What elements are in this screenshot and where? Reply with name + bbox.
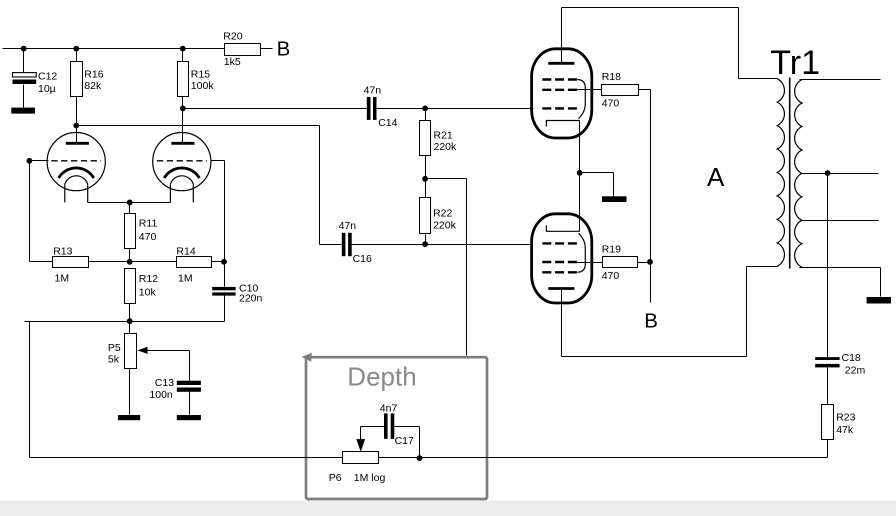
wire plate to transformer bottom	[562, 267, 778, 357]
resistor R13	[53, 257, 89, 268]
node cathode tail node	[127, 200, 133, 206]
bottom page band	[0, 501, 896, 516]
resistor R15	[178, 62, 189, 97]
svg-text:C17: C17	[395, 435, 414, 447]
wire C16 to lower output grid	[352, 244, 533, 246]
ground C13	[177, 415, 201, 420]
wire P5 wiper wire	[148, 351, 190, 381]
wire secondary bottom tap	[800, 268, 881, 297]
wire tail node line	[25, 321, 225, 323]
wire R14 right lead	[212, 261, 225, 263]
Depth tremolo box outline	[306, 357, 487, 499]
svg-text:220k: 220k	[434, 141, 458, 153]
svg-text:A: A	[707, 162, 725, 192]
svg-text:B: B	[277, 38, 291, 61]
svg-text:C18: C18	[842, 352, 861, 364]
wire depth feed drop	[466, 179, 468, 356]
ground secondary	[867, 297, 891, 304]
Depth box corner arrow	[302, 353, 312, 362]
svg-text:47k: 47k	[836, 424, 854, 436]
wire plate to transformer top	[562, 8, 778, 79]
resistor R22	[420, 198, 431, 234]
capacitor C12 (electrolytic)	[13, 73, 37, 77]
wire C18 to R23	[827, 368, 829, 405]
node V1b plate node	[180, 106, 186, 112]
wire V1b plate to C14	[183, 108, 367, 110]
wire screen supply drop to B	[650, 90, 652, 303]
ground P5	[118, 415, 140, 420]
wire secondary tap mid	[802, 220, 879, 222]
wire C17 left lead	[361, 427, 385, 440]
wire drop to C16	[319, 126, 321, 245]
capacitor C17	[384, 413, 388, 439]
wire R15 top lead	[182, 49, 184, 62]
svg-text:R23: R23	[836, 412, 855, 424]
svg-text:R14: R14	[176, 245, 195, 257]
svg-text:4n7: 4n7	[380, 403, 398, 415]
wire lower plate lead down	[561, 289, 563, 357]
svg-text:R19: R19	[602, 244, 621, 256]
node R21-R22 node	[422, 176, 428, 182]
svg-text:C16: C16	[353, 253, 372, 265]
wire R11 top lead	[129, 203, 131, 214]
resistor R14	[177, 257, 212, 268]
wire to C16 left plate	[320, 244, 342, 246]
wire R13-R14 node line	[89, 261, 177, 263]
ground output cathodes	[602, 196, 627, 202]
wire R23 to bottom rail	[827, 440, 829, 458]
svg-text:C13: C13	[155, 377, 174, 389]
node R22-C16 node	[422, 241, 428, 247]
svg-text:R15: R15	[191, 69, 210, 81]
node R19-B node	[647, 259, 653, 265]
capacitor C18	[815, 357, 839, 360]
node bias node	[127, 259, 133, 265]
wire R19 right lead	[638, 262, 651, 264]
wire R11 bottom lead	[129, 249, 131, 262]
svg-text:220n: 220n	[239, 293, 263, 305]
triode V1a	[47, 133, 105, 203]
wire C17 right lead	[395, 427, 420, 458]
resistor R19	[603, 257, 638, 268]
wire R16 top lead	[76, 49, 78, 62]
node rail-R15	[180, 46, 186, 52]
node C17-P6 node	[417, 455, 423, 461]
wire C12 bottom lead	[23, 85, 25, 108]
svg-text:470: 470	[602, 270, 620, 282]
wire screen to R18	[577, 89, 602, 91]
wire C14 to upper output grid	[377, 108, 534, 110]
wire grid node down	[29, 161, 31, 262]
capacitor C13	[177, 381, 201, 385]
svg-text:1M: 1M	[55, 273, 70, 285]
node V1a plate node	[73, 123, 79, 129]
wire R20 to B terminal	[261, 48, 273, 50]
wire cathode to ground	[580, 173, 614, 197]
svg-text:R21: R21	[434, 129, 453, 141]
wire C10 bottom lead	[224, 296, 226, 322]
wire R21 top lead	[425, 109, 427, 121]
svg-text:R20: R20	[223, 31, 242, 43]
pentode upper output tube	[532, 49, 592, 138]
svg-text:1k5: 1k5	[224, 56, 241, 68]
svg-text:470: 470	[602, 98, 620, 110]
wire C10 top lead	[224, 262, 226, 287]
svg-text:5k: 5k	[108, 353, 120, 365]
wire cathode link left	[88, 202, 130, 204]
node feedback tap node	[825, 170, 831, 176]
node cathode junction	[577, 170, 583, 176]
svg-text:Tr1: Tr1	[770, 44, 820, 82]
wire secondary top tap	[800, 79, 881, 81]
svg-text:B: B	[644, 310, 658, 333]
wire R22 top lead	[425, 179, 427, 198]
svg-text:C12: C12	[38, 71, 57, 83]
wire R22 bottom lead	[425, 235, 427, 245]
wire feedback tap drop	[827, 174, 829, 358]
wire V1a grid lead	[30, 160, 49, 162]
node rail-C12	[21, 46, 27, 52]
wire B+ supply top rail	[3, 48, 225, 50]
wire bottom feedback rail	[30, 457, 828, 459]
transformer Tr1 core	[789, 78, 791, 269]
resistor R18	[602, 85, 639, 96]
svg-text:P6: P6	[329, 472, 342, 484]
transformer Tr1 primary winding	[777, 79, 784, 267]
wire R12 bottom lead	[129, 304, 131, 322]
wire depth feed horizontal	[426, 178, 467, 180]
capacitor C10	[212, 287, 235, 290]
node R14-C10 node	[221, 259, 227, 265]
potentiometer P5	[125, 334, 137, 369]
wire secondary tap A	[802, 173, 879, 175]
resistor R16	[71, 62, 83, 97]
resistor R21	[420, 121, 431, 156]
wire left drop to bottom rail	[29, 322, 31, 458]
wire C13 bottom lead	[189, 392, 191, 415]
svg-text:P5: P5	[108, 342, 121, 354]
svg-text:10k: 10k	[139, 286, 157, 298]
wire upper plate lead up	[561, 8, 563, 64]
wire cathode link right	[130, 202, 171, 204]
svg-text:R12: R12	[139, 273, 158, 285]
svg-text:82k: 82k	[84, 80, 102, 92]
pentode lower output tube	[532, 214, 592, 303]
wire C12 top lead	[23, 49, 25, 73]
potentiometer P6	[343, 452, 379, 464]
svg-text:1M log: 1M log	[354, 472, 386, 484]
wire V1b grid drop	[224, 161, 226, 262]
node R12-P5 node	[127, 318, 133, 324]
wire R18 right lead	[639, 89, 651, 91]
svg-text:22m: 22m	[845, 364, 866, 376]
svg-text:R22: R22	[433, 208, 452, 220]
svg-text:47n: 47n	[364, 84, 382, 96]
wire V1a plate line	[77, 125, 320, 127]
svg-text:Depth: Depth	[347, 362, 416, 392]
wire R21 bottom lead	[425, 156, 427, 179]
ground C12	[11, 108, 35, 114]
svg-text:100n: 100n	[149, 389, 173, 401]
resistor R12	[125, 269, 136, 304]
svg-text:C14: C14	[378, 117, 397, 129]
wire to R13 left	[30, 261, 53, 263]
resistor R23	[822, 405, 834, 440]
svg-text:R16: R16	[84, 69, 103, 81]
svg-text:100k: 100k	[191, 80, 215, 92]
svg-text:R13: R13	[53, 245, 72, 257]
resistor R20	[225, 44, 261, 56]
node C14-R21 node	[422, 106, 428, 112]
node rail-R16	[73, 46, 79, 52]
svg-text:10µ: 10µ	[38, 83, 56, 95]
wire P5 top lead	[129, 322, 131, 334]
resistor R11	[125, 214, 136, 249]
wire P5 bottom lead	[129, 369, 131, 415]
svg-text:1M: 1M	[178, 273, 193, 285]
wire R16 to V1a plate	[76, 97, 78, 144]
svg-text:R11: R11	[139, 218, 158, 230]
wire cathode bus	[579, 121, 581, 232]
capacitor C14	[367, 97, 371, 120]
svg-text:470: 470	[139, 231, 157, 243]
svg-text:R18: R18	[602, 71, 621, 83]
wire R15 to V1b plate	[182, 97, 184, 144]
svg-text:220k: 220k	[433, 220, 457, 232]
svg-text:47n: 47n	[339, 220, 357, 232]
capacitor C16	[342, 233, 346, 256]
wire screen to R19	[577, 262, 603, 264]
wire V1b grid lead right	[212, 160, 225, 162]
transformer Tr1 secondary winding	[795, 80, 802, 268]
node V1a grid node	[27, 158, 33, 164]
triode V1b	[153, 133, 211, 203]
